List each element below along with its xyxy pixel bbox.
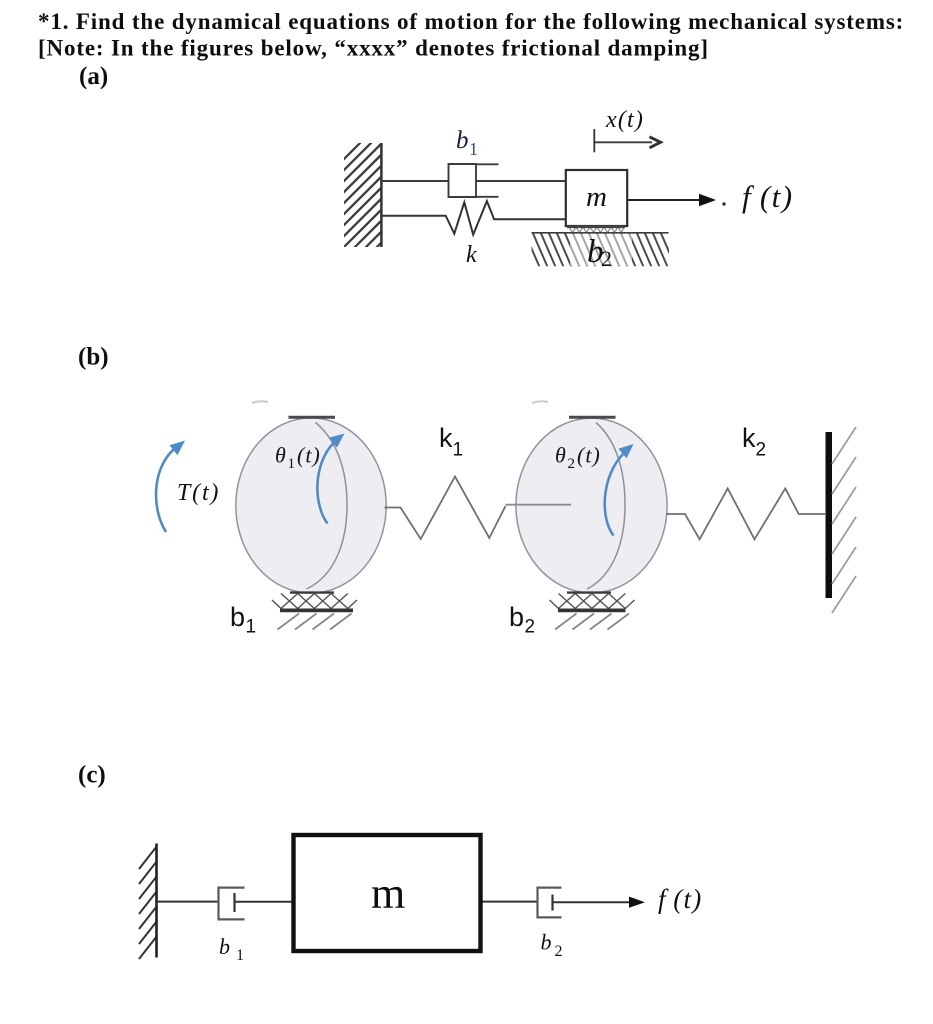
disk 2 body xyxy=(516,418,667,593)
svg-text:k2: k2 xyxy=(742,423,766,461)
damper b1 piston xyxy=(233,893,235,912)
friction pad disk1 base bar xyxy=(280,609,353,613)
disk 1 front-face arc xyxy=(307,423,348,590)
svg-text:f (t): f (t) xyxy=(742,179,794,214)
svg-text:b1: b1 xyxy=(456,127,478,159)
disk 2 front-face arc xyxy=(587,423,625,590)
force arrow f(t) part a xyxy=(628,199,702,201)
svg-text:b2: b2 xyxy=(509,602,535,638)
friction pad disk2 ground strokes xyxy=(555,614,629,630)
friction pad disk2 cross hatch xyxy=(550,594,635,609)
svg-text:(c): (c) xyxy=(78,762,106,789)
svg-text:m: m xyxy=(586,181,607,213)
wall B hatching xyxy=(832,427,856,613)
svg-text:*1. Find the dynamical equatio: *1. Find the dynamical equations of moti… xyxy=(38,9,904,34)
svg-text:x(t): x(t) xyxy=(605,107,644,133)
svg-text:k1: k1 xyxy=(439,423,463,461)
wire wall to damper b1 xyxy=(157,901,219,903)
svg-text:m: m xyxy=(371,869,405,918)
svg-text:b1: b1 xyxy=(230,602,256,638)
ground hatch light center xyxy=(570,234,632,266)
wall A hatching xyxy=(341,122,381,283)
svg-text:b2: b2 xyxy=(541,930,563,961)
svg-text:k: k xyxy=(466,242,477,268)
friction pad disk2 top line xyxy=(567,591,611,593)
friction pad disk2 base bar xyxy=(558,609,626,613)
wall C edge line xyxy=(155,844,158,958)
ground hatching b2 xyxy=(524,231,676,268)
wall C hatching xyxy=(139,846,157,959)
x(t) reference mark xyxy=(593,129,595,152)
smudge above disk1 xyxy=(252,401,268,403)
torque arrow T(t) xyxy=(156,449,174,532)
wall A edge line xyxy=(380,143,383,247)
mass m box (part a) xyxy=(566,170,627,226)
friction pad disk1 cross hatch xyxy=(272,594,357,609)
mass m box (part c) xyxy=(294,835,481,951)
disk 1 body xyxy=(236,418,386,593)
damper b2 piston xyxy=(551,895,553,911)
friction pad disk1 top line xyxy=(290,591,334,593)
disk 2 top mark xyxy=(569,416,616,419)
wire rod damper to mass xyxy=(476,180,566,182)
spring k2 xyxy=(666,488,825,539)
disk 1 top mark xyxy=(289,416,336,419)
theta1 arrow xyxy=(317,443,334,524)
svg-text:f (t): f (t) xyxy=(658,884,702,914)
wall B bar xyxy=(826,432,833,598)
svg-text:(b): (b) xyxy=(78,344,109,371)
damper b2 bracket (part c) xyxy=(538,887,562,919)
svg-text:b1: b1 xyxy=(219,934,244,964)
wire mass to damper b2 xyxy=(483,901,538,903)
damper b1 bracket (part c) xyxy=(219,887,245,921)
svg-text:[Note: In the figures below, “: [Note: In the figures below, “xxxx” deno… xyxy=(38,36,709,61)
wire rod wall to damper xyxy=(382,180,449,182)
damper B1 cylinder box xyxy=(449,163,499,198)
force arrow head part c xyxy=(629,897,645,908)
spring k1 xyxy=(385,477,506,540)
svg-text:T(t): T(t) xyxy=(177,480,220,506)
svg-text:(a): (a) xyxy=(79,63,108,90)
friction pad disk1 ground strokes xyxy=(278,614,352,630)
ground top line xyxy=(532,232,669,234)
smudge above disk2 xyxy=(532,401,548,403)
node line into disk2 xyxy=(506,504,572,506)
theta2 arrow xyxy=(605,453,624,536)
friction teeth under mass xyxy=(569,227,624,233)
spring k xyxy=(382,201,566,235)
